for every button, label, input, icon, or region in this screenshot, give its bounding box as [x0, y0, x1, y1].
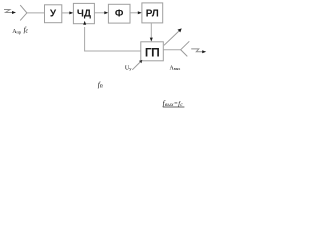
block Ф — [108, 4, 130, 23]
svg-text:У: У — [50, 9, 57, 20]
diagonal arrowhead — [178, 28, 182, 32]
arrowhead into ГП top — [150, 38, 153, 42]
wire У to ЧД — [62, 12, 71, 14]
arrowhead into ЧД — [69, 11, 73, 14]
svg-text:Aвых: Aвых — [170, 65, 181, 71]
wire ЧД to Ф — [94, 12, 105, 14]
wire ГП to output fork — [163, 49, 180, 51]
input signal squiggle arrow — [4, 10, 13, 13]
feedback wire ГП to ЧД — [85, 27, 141, 51]
antenna fork input — [20, 5, 27, 20]
block ГП — [141, 42, 164, 61]
output squiggle arrow — [191, 49, 203, 52]
wire Ф to РЛ — [130, 12, 139, 14]
caption underline — [163, 106, 185, 108]
arrowhead into ГП bottom — [139, 60, 142, 63]
block РЛ — [142, 3, 163, 23]
arrowhead into ЧД bottom — [83, 21, 86, 25]
output fork — [181, 41, 190, 56]
arrowhead into Ф — [104, 11, 108, 14]
diagonal output arrow from ГП — [164, 31, 179, 45]
svg-text:РЛ: РЛ — [146, 9, 159, 20]
input arrowhead — [12, 11, 16, 14]
wire РЛ down to ГП — [150, 23, 152, 39]
arrowhead into РЛ — [138, 11, 142, 14]
output arrowhead — [202, 50, 206, 53]
block У — [45, 5, 62, 23]
caption fвых=fс — [163, 100, 184, 109]
svg-text:ГП: ГП — [145, 45, 159, 59]
block ЧД — [73, 3, 94, 23]
control input Uу line — [132, 62, 140, 70]
svg-text:ЧД: ЧД — [77, 9, 91, 20]
svg-text:Aпр: Aпр — [12, 29, 21, 35]
svg-text:Uу: Uу — [125, 66, 132, 72]
wire fork to У — [27, 12, 45, 14]
svg-text:Ф: Ф — [115, 9, 124, 20]
